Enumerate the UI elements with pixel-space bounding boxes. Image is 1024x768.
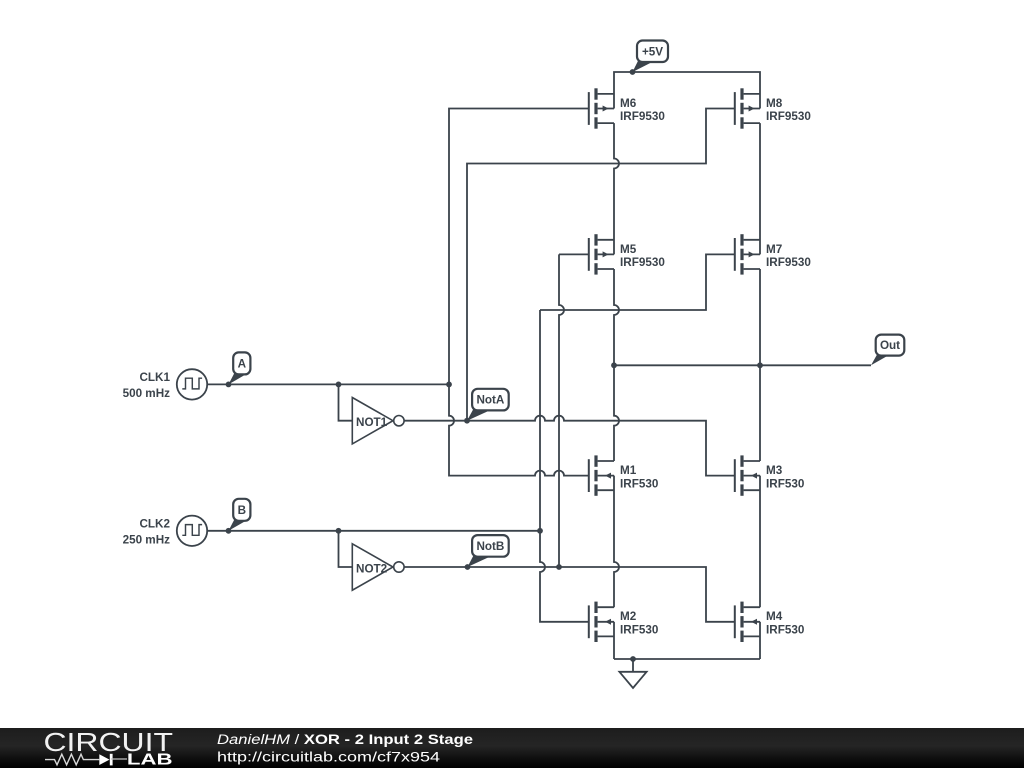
wire Out rail down to M3 drain	[759, 365, 761, 461]
svg-text:M3: M3	[766, 464, 783, 477]
footer url	[217, 749, 441, 764]
transistor M1	[589, 455, 659, 495]
svg-text:M2: M2	[620, 610, 637, 623]
wire Out rail down to M1 drain (hop over NotA wire)	[614, 365, 619, 461]
node NotB flag anchor dot	[465, 564, 471, 570]
wire M8 drain to M7 source	[759, 123, 761, 254]
wire node A riser up to M6 gate	[449, 109, 589, 385]
node ground junction dot	[630, 656, 636, 662]
wire M7 drain to Out rail	[759, 269, 761, 365]
wire M6 drain to M5 source (hop over NotA-M8 wire)	[614, 123, 619, 254]
svg-text:IRF530: IRF530	[766, 477, 805, 490]
footer title	[217, 732, 474, 747]
transistor M5	[589, 234, 666, 274]
transistor M7	[735, 234, 812, 274]
wire node B: CLK2 output horizontal	[208, 530, 540, 532]
svg-text:+5V: +5V	[642, 45, 663, 58]
wire M2 source to ground rail	[613, 622, 615, 659]
node Out rail left junction	[611, 362, 617, 368]
node B-wire junction to NOT2	[336, 528, 342, 534]
svg-text:LAB: LAB	[127, 752, 173, 768]
svg-text:IRF9530: IRF9530	[620, 110, 665, 123]
svg-text:M1: M1	[620, 464, 637, 477]
wire node NotA: NOT1 output to M3 gate (bumps over B and NotB risers)	[404, 416, 735, 476]
logo CIRCUIT	[44, 727, 174, 757]
wire NOT2 input riser	[339, 531, 353, 567]
svg-text:IRF530: IRF530	[620, 624, 659, 637]
svg-text:CLK2: CLK2	[139, 517, 170, 530]
svg-text:NOT1: NOT1	[356, 416, 388, 429]
svg-text:IRF530: IRF530	[620, 477, 659, 490]
transistor M2	[589, 602, 659, 642]
svg-text:DanielHM / XOR - 2 Input 2 Sta: DanielHM / XOR - 2 Input 2 Stage	[217, 732, 474, 747]
transistor M6	[589, 88, 666, 128]
wire B riser down to M2 gate (hop over NotB wire)	[540, 310, 589, 622]
svg-text:M6: M6	[620, 97, 637, 110]
wire NotB riser up to M5 gate (hop over B-M7 wire)	[559, 254, 589, 567]
svg-text:A: A	[238, 358, 247, 371]
ground	[619, 659, 646, 688]
flag +5V	[633, 41, 669, 73]
wire NOT1 input riser	[339, 384, 353, 420]
transistor M3	[735, 455, 805, 495]
wire node NotB: NOT2 output to M4 gate	[404, 567, 735, 622]
svg-text:IRF9530: IRF9530	[766, 256, 811, 269]
wire node Out rail	[614, 364, 871, 366]
wire M3 source to M4 drain	[759, 476, 761, 608]
flag B	[229, 499, 251, 531]
svg-text:B: B	[238, 504, 246, 517]
node NotB junction with M5 riser	[556, 564, 562, 570]
svg-text:NotA: NotA	[476, 394, 504, 407]
transistor M4	[735, 602, 805, 642]
wire ground rail	[614, 658, 760, 660]
svg-text:M5: M5	[620, 243, 637, 256]
node A-wire junction to NOT1	[336, 382, 342, 388]
svg-text:IRF9530: IRF9530	[620, 256, 665, 269]
node Out rail right junction	[757, 362, 763, 368]
node NotA junction dot	[464, 418, 470, 424]
node B flag anchor dot	[226, 528, 232, 534]
node B-wire end junction	[537, 528, 543, 534]
clock source CLK1	[123, 369, 208, 400]
wire node A: CLK1 output horizontal	[208, 383, 449, 385]
logo LAB	[127, 752, 173, 768]
node A-wire end junction	[446, 382, 452, 388]
svg-text:500 mHz: 500 mHz	[123, 387, 171, 400]
wire M1 source to M2 drain (hop over NotB wire)	[614, 476, 619, 608]
footer bar	[0, 728, 1024, 768]
svg-text:M8: M8	[766, 97, 783, 110]
svg-text:http://circuitlab.com/cf7x954: http://circuitlab.com/cf7x954	[217, 749, 441, 764]
wire M5 drain down to Out rail (hop over B-M7 wire)	[614, 269, 619, 365]
svg-text:IRF530: IRF530	[766, 624, 805, 637]
inverter NOT1	[352, 398, 404, 444]
clock source CLK2	[123, 516, 208, 547]
transistor M8	[735, 88, 812, 128]
svg-text:M7: M7	[766, 243, 782, 256]
svg-text:Out: Out	[880, 339, 900, 352]
svg-text:M4: M4	[766, 610, 783, 623]
wire B riser up to M7 gate	[540, 254, 735, 310]
wire M4 source to ground rail	[759, 622, 761, 659]
flag NotB	[468, 535, 509, 567]
flag NotA	[467, 389, 509, 421]
wire NotA riser up to M8 gate	[467, 109, 735, 421]
node +5V junction dot	[630, 69, 636, 75]
svg-text:NOT2: NOT2	[356, 562, 388, 575]
svg-text:IRF9530: IRF9530	[766, 110, 811, 123]
flag A	[229, 352, 251, 384]
flag Out	[871, 335, 904, 366]
wire node A riser down to M1 gate (hop over NotA wire, hops under B/NotB risers)	[449, 384, 589, 475]
svg-text:250 mHz: 250 mHz	[123, 533, 171, 546]
wire +5V rail with M6/M8 source stubs	[614, 72, 760, 109]
inverter NOT2	[352, 544, 404, 590]
svg-text:NotB: NotB	[476, 540, 504, 553]
node A flag anchor dot	[226, 382, 232, 388]
logo resistor-diode doodle	[45, 754, 127, 766]
svg-text:CLK1: CLK1	[139, 371, 170, 384]
